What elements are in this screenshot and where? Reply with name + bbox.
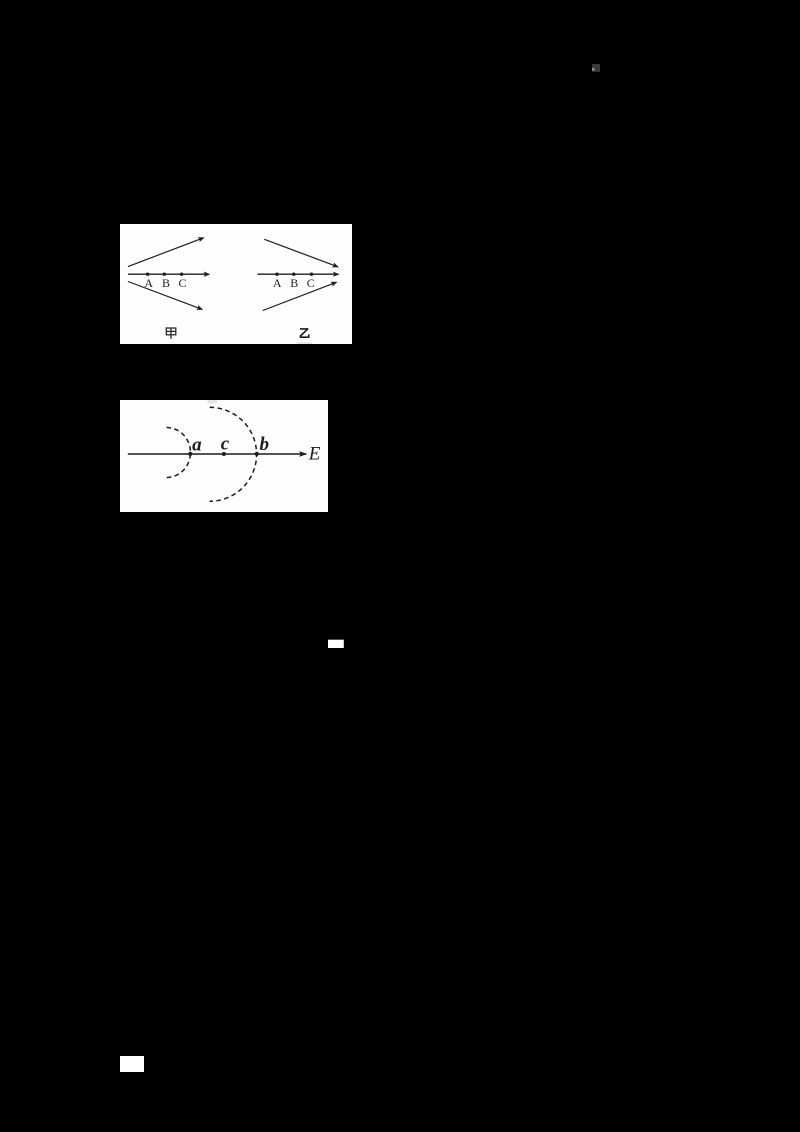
figure 乙: lower field line (263, 282, 337, 310)
scan artifact: gray smudge under 乙 (297, 342, 313, 344)
figure 乙: horizontal field line (258, 273, 339, 275)
figure 乙: node C dot (310, 273, 313, 276)
svg-text:E: E (308, 444, 321, 465)
figure 乙: caption glyph 乙 drawn as strokes (300, 329, 309, 337)
scan artifact: dark gray square top right (592, 64, 600, 72)
svg-text:A: A (273, 276, 282, 290)
figure 甲: lower field line (128, 282, 202, 310)
svg-text:B: B (290, 276, 298, 290)
figure 甲: node B dot (163, 273, 166, 276)
figure 2: field line E with arrow (128, 453, 306, 455)
figure 1 white panel (120, 224, 352, 344)
figure 甲: node C dot (180, 273, 183, 276)
figure 2: node a dot (188, 452, 192, 456)
svg-text:b: b (259, 434, 269, 455)
svg-text:A: A (144, 276, 153, 290)
figure 甲: caption glyph 甲 drawn as strokes (166, 328, 176, 339)
scan artifact: white rectangle bottom left (120, 1056, 144, 1072)
figure 甲: horizontal field line (128, 273, 209, 275)
figure 2 white panel (120, 400, 328, 512)
figure 甲: node A dot (146, 273, 149, 276)
figure 2: small dashed equipotential arc through a (167, 428, 191, 478)
scan artifact: gray smudge at top of figure 2 (208, 400, 218, 403)
figure 乙: node A dot (275, 273, 278, 276)
figure 2: large dashed equipotential arc through b (210, 407, 257, 501)
figure 2: node b dot (255, 452, 259, 456)
scan artifact: small white dash mid page (328, 640, 344, 648)
figure 甲: upper field line (128, 238, 204, 267)
svg-text:a: a (192, 434, 202, 455)
figure 2: node c dot (222, 452, 226, 456)
svg-text:c: c (221, 434, 230, 455)
figure 乙: upper field line (264, 239, 338, 266)
scan artifact: light dot in square (592, 68, 595, 71)
svg-text:C: C (178, 276, 186, 290)
svg-text:C: C (307, 276, 315, 290)
svg-text:B: B (162, 276, 170, 290)
figure 乙: node B dot (292, 273, 295, 276)
